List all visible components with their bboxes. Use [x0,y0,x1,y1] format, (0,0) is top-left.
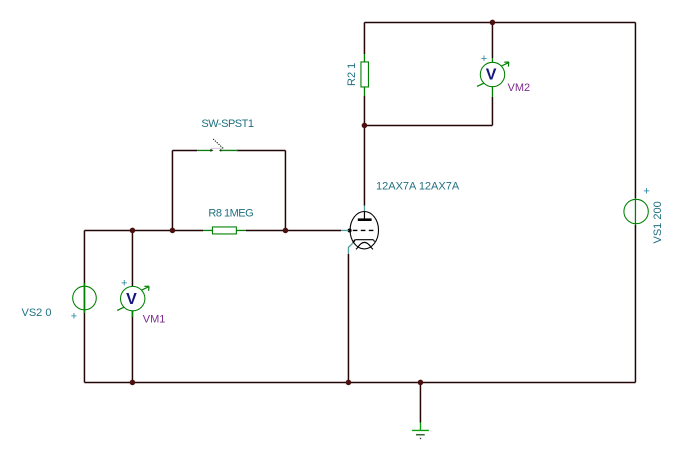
wire left rail [83,230,85,382]
SW-SPST1 right lead [221,149,238,151]
wire ground branch [419,382,421,422]
node dot bottom rail / VM1 [130,380,136,386]
resistor R8 [203,227,246,234]
U1 envelope [350,212,378,249]
triode U1 12AX7A [341,206,378,255]
svg-text:V: V [486,67,497,84]
node dot bottom rail / cathode [346,380,352,386]
ground stem [419,423,421,431]
svg-text:12AX7A 12AX7A: 12AX7A 12AX7A [376,181,460,193]
wire switch loop left [171,150,173,230]
VM2 needle arrow [501,63,508,66]
node dot main row / loop right [283,228,289,234]
node dot main row / VM1 [130,228,136,234]
node dot main row / loop left [170,228,176,234]
VS2 through lead [83,283,85,313]
wire loop bottom horizontal [364,124,492,126]
wire VM2 bottom branch [491,97,493,125]
R2 top lead [363,54,365,62]
VS1 through lead [634,198,636,225]
wire main row right of R8 [246,229,341,231]
svg-text:R8 1MEG: R8 1MEG [208,207,253,219]
wire bottom rail [84,381,635,383]
svg-text:+: + [71,310,77,322]
svg-text:SW-SPST1: SW-SPST1 [201,118,254,130]
ground bar 2 [416,434,425,436]
source VS2 [71,283,96,322]
wire VM2 top branch [491,22,493,58]
source VS1 [624,185,650,225]
wire switch loop top left [172,149,197,151]
wire VM1 branch upper [131,230,133,287]
wire plate branch lower [363,125,365,205]
U1 grid terminal dot [348,228,352,232]
VM1 needle tail [117,307,124,310]
wire main row [84,229,203,231]
U1 heater dome [357,242,371,248]
SW-SPST1 right contact [219,149,221,152]
R8 right lead [236,229,246,231]
voltmeter VM1 [117,277,149,317]
U1 anode pin [363,206,365,212]
svg-text:VS1 200: VS1 200 [652,201,664,243]
SW-SPST1 lever [213,139,223,148]
svg-text:VS2 0: VS2 0 [22,307,52,319]
U1 cathode bend [353,240,355,243]
R2 body [361,62,369,87]
wire switch loop right [284,150,286,230]
VS2 body circle [73,286,97,310]
svg-text:VM2: VM2 [508,82,531,94]
VM2 top lead [491,58,493,63]
VM1 top lead [131,286,133,288]
svg-text:V: V [126,291,137,308]
wire switch loop top right [237,149,285,151]
R2 bottom lead [363,87,365,96]
U1 anode plate bar [358,218,372,221]
SW-SPST1 gap bar [211,147,224,149]
U1 cathode pin [348,243,352,254]
wire right rail upper [634,22,636,198]
VM2 needle tail [477,83,484,86]
node dot bottom rail / ground [418,380,424,386]
wire VM1 branch lower [131,311,133,382]
VM2 body circle [480,62,504,86]
wire right rail lower [634,225,636,382]
SW-SPST1 left contact [210,149,213,152]
svg-text:+: + [643,185,649,197]
ground bar 3 [420,437,421,439]
VM1 body circle [121,286,145,310]
svg-text:R2 1: R2 1 [346,63,358,86]
U1 grid pin [341,229,349,231]
wire plate branch upper [363,22,365,54]
SW-SPST1 left lead [197,149,211,151]
U1 grid dashed line [353,229,376,231]
ground bar 1 [412,429,429,431]
VS1 body circle [624,199,648,223]
svg-text:+: + [481,53,487,65]
resistor R2 [361,54,369,96]
switch SW-SPST1 [197,139,238,152]
VM2 bottom lead [491,87,493,97]
node dot top rail / VM2 [490,20,496,26]
ground [412,423,429,439]
svg-text:VM1: VM1 [143,314,166,326]
U1 anode lead [363,212,365,220]
VM1 needle arrow [142,287,149,290]
node dot plate / loop bottom [362,123,368,129]
voltmeter VM2 [477,53,509,97]
U1 cathode line [355,239,373,241]
svg-text:+: + [121,277,127,289]
R8 left lead [203,229,212,231]
wire cathode branch [347,254,349,382]
VM1 bottom lead [131,311,133,317]
wire top rail [364,21,635,23]
R8 body [212,227,236,234]
wire plate branch mid [363,96,365,125]
